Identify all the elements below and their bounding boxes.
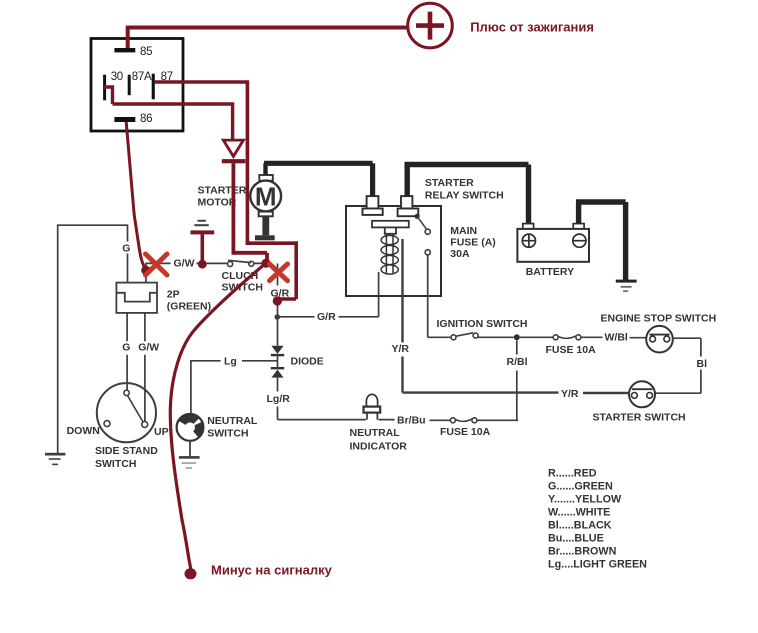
engine stop switch label <box>601 313 717 325</box>
svg-text:STARTER: STARTER <box>425 177 474 189</box>
wire Bl <box>655 338 701 393</box>
svg-text:ENGINE STOP SWITCH: ENGINE STOP SWITCH <box>601 313 717 325</box>
svg-text:G: G <box>122 242 130 254</box>
starter relay switch box <box>346 206 441 296</box>
svg-text:G: G <box>122 342 130 354</box>
battery BT1 <box>517 224 589 262</box>
relay switch stub terminals <box>363 196 419 216</box>
svg-text:Bl.....BLACK: Bl.....BLACK <box>548 520 612 532</box>
wire red diode to clutch junction <box>232 163 268 261</box>
node red dot ground stem <box>198 260 207 269</box>
relay pin 87 <box>152 71 173 99</box>
wire ignition switch row <box>428 336 647 338</box>
wire neutral to ground <box>189 441 191 457</box>
svg-text:Y/R: Y/R <box>392 343 410 355</box>
main fuse label <box>450 225 496 260</box>
svg-text:M: M <box>255 181 277 211</box>
svg-text:Br.....BROWN: Br.....BROWN <box>548 546 617 558</box>
thick wire stub feeds <box>373 163 529 223</box>
diode D2 red <box>222 140 246 163</box>
svg-text:Br/Bu: Br/Bu <box>397 415 426 427</box>
svg-text:SWITCH: SWITCH <box>207 427 248 439</box>
legend color codes <box>548 468 647 571</box>
engine stop switch SW5 <box>646 326 673 353</box>
wire Y/R <box>403 239 630 393</box>
svg-text:Lg....LIGHT GREEN: Lg....LIGHT GREEN <box>548 559 647 571</box>
svg-text:BATTERY: BATTERY <box>526 266 574 278</box>
ground G2 <box>179 456 200 469</box>
diode label <box>291 355 324 367</box>
clutch switch SW2 <box>228 260 254 266</box>
battery label <box>526 266 574 278</box>
relay pin 87A <box>128 71 152 95</box>
wire red curve to alarm minus <box>170 263 266 569</box>
fuse F2 10A <box>450 340 518 423</box>
svg-text:Y.......YELLOW: Y.......YELLOW <box>548 494 622 506</box>
label Lg <box>224 356 237 368</box>
node junction G/R <box>275 314 281 320</box>
wire red pin30 to diode <box>104 87 233 140</box>
label R/Bl <box>507 356 528 368</box>
node red dot pin86 end <box>141 266 150 275</box>
svg-text:G/W: G/W <box>174 257 195 269</box>
svg-text:MOTOR: MOTOR <box>198 197 237 209</box>
node dot ignition junction <box>514 334 520 340</box>
svg-text:DOWN: DOWN <box>67 425 100 437</box>
svg-text:85: 85 <box>140 46 152 58</box>
svg-text:(GREEN): (GREEN) <box>167 301 211 313</box>
connector 2P label <box>167 289 211 313</box>
svg-text:DIODE: DIODE <box>291 355 324 367</box>
label minus na signalku <box>211 563 333 578</box>
svg-text:G......GREEN: G......GREEN <box>548 481 613 493</box>
relay switch plunger T <box>372 221 409 234</box>
svg-text:Bu....BLUE: Bu....BLUE <box>548 533 604 545</box>
wire G pin down <box>126 313 128 390</box>
ground symbol red <box>191 220 215 261</box>
ignition switch SW4 <box>451 333 478 340</box>
label Bl <box>697 358 708 370</box>
ground G1 <box>45 453 65 465</box>
svg-text:86: 86 <box>140 113 152 125</box>
svg-text:30A: 30A <box>450 248 470 260</box>
svg-text:SIDE STAND: SIDE STAND <box>95 445 158 457</box>
svg-text:UP: UP <box>154 426 169 438</box>
svg-text:G/R: G/R <box>317 311 336 323</box>
label G/W <box>174 257 195 269</box>
svg-text:Lg/R: Lg/R <box>267 393 291 405</box>
wire red pin86 down <box>126 122 146 269</box>
svg-text:87A: 87A <box>132 71 152 83</box>
svg-text:R/Bl: R/Bl <box>507 356 528 368</box>
svg-text:RELAY SWITCH: RELAY SWITCH <box>425 189 504 201</box>
svg-text:SWITCH: SWITCH <box>95 458 136 470</box>
svg-text:NEUTRAL: NEUTRAL <box>350 427 401 439</box>
label plus ot zazhiganiya <box>470 19 594 34</box>
side stand labels <box>67 425 169 470</box>
fuse F2 label <box>440 426 491 438</box>
red X cut 2 <box>270 264 288 281</box>
svg-text:MAIN: MAIN <box>450 225 477 237</box>
relay pin 30 <box>103 71 123 100</box>
label Br/Bu <box>397 415 426 427</box>
wire battery minus to ground <box>576 202 626 280</box>
svg-text:30: 30 <box>111 71 123 83</box>
connector 2P (GREEN) <box>116 283 157 313</box>
relay K1 box <box>91 39 183 132</box>
starter motor M1 <box>250 163 372 240</box>
starter motor label <box>198 185 247 209</box>
wire coil left lead <box>378 272 380 296</box>
wire G/W clutch line <box>146 263 264 282</box>
svg-text:INDICATOR: INDICATOR <box>350 440 408 452</box>
wire Br/Bu <box>379 419 451 422</box>
relay switch coil <box>381 234 398 274</box>
relay pin 86 <box>114 113 152 125</box>
neutral switch SW3 <box>177 414 204 441</box>
svg-text:Bl: Bl <box>697 358 708 370</box>
starter switch label <box>593 411 686 423</box>
svg-text:G/W: G/W <box>138 342 159 354</box>
svg-text:W/Bl: W/Bl <box>605 332 628 344</box>
side stand switch SW1 <box>97 383 156 442</box>
wire G/R horizontal to relay switch <box>280 296 379 317</box>
wire G/W pin down <box>144 313 146 422</box>
svg-text:R......RED: R......RED <box>548 468 597 480</box>
svg-text:FUSE 10A: FUSE 10A <box>440 426 491 438</box>
svg-text:Минус на сигналку: Минус на сигналку <box>211 563 333 578</box>
wire red pin87 bypass <box>155 80 296 301</box>
svg-text:FUSE 10A: FUSE 10A <box>546 344 597 356</box>
label Y/R 1 <box>392 343 410 355</box>
wire Lg/R <box>278 378 366 420</box>
fuse F1 10A <box>553 335 581 340</box>
neutral indicator label <box>350 427 408 452</box>
label Y/R 2 <box>561 388 579 400</box>
ground G3 <box>616 280 637 292</box>
svg-text:Плюс от зажигания: Плюс от зажигания <box>470 19 594 34</box>
neutral indicator lamp L1 <box>364 394 381 419</box>
neutral switch label <box>207 415 258 439</box>
svg-text:FUSE (A): FUSE (A) <box>450 236 496 248</box>
wire ground loop left (G net) <box>58 225 128 453</box>
svg-text:STARTER SWITCH: STARTER SWITCH <box>593 411 686 423</box>
svg-text:W......WHITE: W......WHITE <box>548 507 610 519</box>
label G/R bold <box>271 287 290 299</box>
svg-text:NEUTRAL: NEUTRAL <box>207 415 258 427</box>
svg-text:STARTER: STARTER <box>198 185 247 197</box>
wire Lg <box>191 356 278 414</box>
clutch switch label <box>222 270 263 294</box>
power symbol plus ignition <box>408 3 453 48</box>
svg-text:IGNITION SWITCH: IGNITION SWITCH <box>437 318 528 330</box>
relay pin 85 <box>114 46 152 58</box>
node G label <box>122 242 130 254</box>
wire red pin85 to plus <box>126 28 408 49</box>
label W/Bl <box>605 332 628 344</box>
node red dot G/R reconnect <box>273 296 282 305</box>
svg-text:2P: 2P <box>167 289 180 301</box>
label Lg/R <box>267 393 291 405</box>
svg-text:Lg: Lg <box>224 356 237 368</box>
node red dot clutch junction <box>261 259 270 268</box>
wire G/R vertical from clutch junction <box>277 264 279 346</box>
red X cut 1 <box>146 254 168 275</box>
relay switch contact <box>415 214 431 338</box>
ignition switch label <box>437 318 528 330</box>
label G/R 2 <box>317 311 336 323</box>
fuse F1 label <box>546 344 597 356</box>
node red dot alarm minus <box>185 568 197 579</box>
diode D1 assembly <box>271 346 284 378</box>
svg-text:Y/R: Y/R <box>561 388 579 400</box>
relay switch labels <box>425 177 504 202</box>
starter switch SW6 <box>629 381 655 407</box>
wire labels G and G/W <box>122 342 159 354</box>
